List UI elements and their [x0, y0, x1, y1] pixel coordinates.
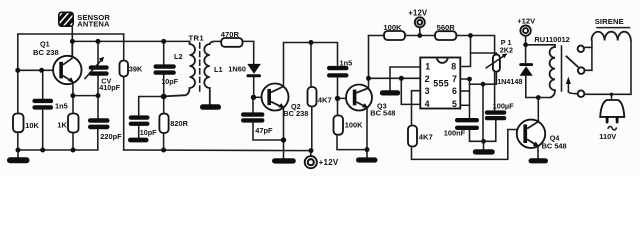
- svg-text:TR1: TR1: [189, 33, 205, 42]
- svg-text:SIRENE: SIRENE: [595, 17, 624, 26]
- svg-text:1: 1: [425, 62, 430, 72]
- svg-text:+12V: +12V: [319, 158, 339, 167]
- svg-text:220pF: 220pF: [100, 132, 122, 141]
- svg-text:1n5: 1n5: [55, 101, 68, 110]
- svg-text:ANTENA: ANTENA: [77, 19, 110, 28]
- svg-text:1N4148: 1N4148: [497, 77, 522, 86]
- svg-text:BC 238: BC 238: [283, 109, 308, 118]
- svg-text:820R: 820R: [170, 119, 188, 128]
- svg-text:2K2: 2K2: [500, 45, 513, 54]
- svg-text:470R: 470R: [221, 30, 240, 39]
- svg-text:110V: 110V: [599, 132, 616, 141]
- svg-text:4K7: 4K7: [318, 95, 332, 104]
- svg-text:100µF: 100µF: [493, 101, 515, 110]
- svg-text:L1: L1: [214, 65, 223, 74]
- svg-text:2: 2: [425, 74, 430, 84]
- svg-text:BC 238: BC 238: [33, 48, 59, 57]
- svg-text:+12V: +12V: [408, 9, 428, 18]
- svg-text:1N60: 1N60: [228, 65, 246, 74]
- svg-text:560R: 560R: [437, 23, 456, 32]
- svg-text:100K: 100K: [345, 121, 363, 130]
- svg-text:5: 5: [452, 99, 457, 109]
- svg-text:39K: 39K: [129, 65, 143, 74]
- svg-text:1K: 1K: [57, 120, 67, 129]
- svg-text:4K7: 4K7: [419, 133, 433, 142]
- svg-text:3: 3: [425, 86, 430, 96]
- svg-text:100nF: 100nF: [444, 129, 466, 138]
- svg-text:7: 7: [452, 74, 457, 84]
- svg-text:+12V: +12V: [517, 17, 536, 26]
- svg-text:100K: 100K: [383, 23, 402, 32]
- svg-text:555: 555: [433, 79, 449, 89]
- svg-text:BC 548: BC 548: [370, 108, 395, 117]
- svg-text:10K: 10K: [25, 121, 39, 130]
- svg-text:L2: L2: [174, 52, 183, 61]
- svg-text:47pF: 47pF: [255, 126, 273, 135]
- svg-text:10pF: 10pF: [161, 77, 178, 86]
- svg-text:BC 548: BC 548: [542, 142, 567, 151]
- svg-text:8: 8: [451, 61, 456, 71]
- svg-text:410pF: 410pF: [99, 83, 120, 92]
- svg-text:6: 6: [452, 86, 457, 96]
- svg-text:RU110012: RU110012: [534, 35, 569, 44]
- svg-text:10pF: 10pF: [140, 128, 157, 137]
- svg-text:4: 4: [425, 99, 430, 109]
- svg-text:1n5: 1n5: [340, 58, 353, 67]
